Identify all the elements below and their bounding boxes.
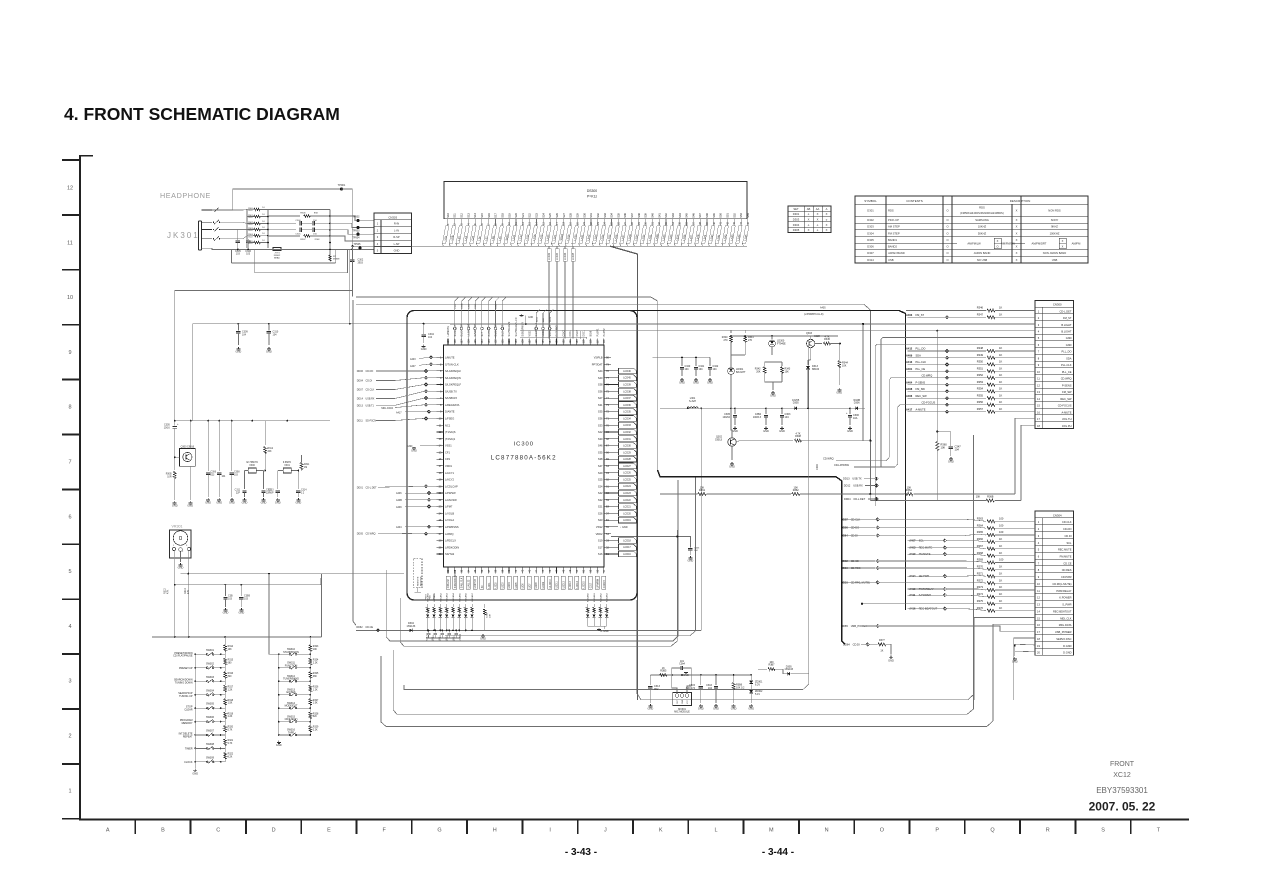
svg-text:CF9: CF9 [445, 457, 450, 461]
svg-text:SD-FSCN: SD-FSCN [366, 420, 377, 423]
svg-text:S36: S36 [598, 417, 603, 421]
svg-text:DD13: DD13 [843, 477, 850, 481]
wire left y323 long net [193, 323, 450, 325]
svg-text:GND: GND [187, 504, 193, 508]
svg-text:2.2K: 2.2K [228, 716, 233, 718]
svg-text:10: 10 [67, 295, 73, 301]
capacitor C308 column [231, 421, 233, 471]
svg-text:PWR.RELAY: PWR.RELAY [1056, 589, 1071, 593]
svg-text:135: 135 [474, 339, 477, 344]
svg-text:7: 7 [68, 460, 71, 466]
resistor R374 [987, 595, 995, 598]
svg-text:S54: S54 [746, 213, 750, 218]
svg-text:10K: 10K [976, 496, 981, 499]
svg-text:PW6: PW6 [430, 594, 432, 600]
svg-text:L/WRQ: L/WRQ [445, 532, 454, 536]
svg-text:CD.WRQ: CD.WRQ [823, 457, 834, 461]
svg-text:TIMER: TIMER [185, 747, 193, 750]
resistor R323 [309, 637, 311, 645]
svg-text:RECEIVE: RECEIVE [421, 576, 423, 586]
svg-text:D.GND: D.GND [1063, 651, 1071, 655]
svg-text:270: 270 [724, 339, 729, 342]
svg-text:S18: S18 [500, 213, 504, 218]
svg-text:6: 6 [68, 514, 71, 520]
svg-text:S42: S42 [664, 213, 668, 218]
led LD301 backlight [731, 354, 745, 356]
resistor R355 1K [987, 397, 995, 400]
svg-text:S: S [1101, 828, 1105, 834]
svg-text:DD06: DD06 [357, 370, 364, 373]
svg-text:1K: 1K [999, 400, 1002, 404]
switch column right rail [278, 654, 280, 736]
svg-text:HSCAN3: HSCAN3 [446, 592, 449, 602]
capacitor C313 mic [649, 675, 651, 685]
svg-text:LCD14: LCD14 [577, 580, 579, 588]
svg-text:R3B7: R3B7 [768, 664, 775, 667]
svg-text:GND: GND [836, 391, 842, 395]
svg-text:10K: 10K [228, 649, 233, 651]
q302 wires [731, 408, 732, 438]
capacitor C309 on y323 [237, 324, 239, 331]
svg-text:R364: R364 [977, 523, 984, 527]
svg-text:R369: R369 [977, 558, 984, 562]
svg-text:6B100: 6B100 [812, 368, 820, 371]
svg-text:BLU: BLU [249, 217, 253, 219]
svg-text:X: X [1016, 209, 1018, 213]
svg-text:L36: L36 [477, 236, 482, 241]
resistor C319 pull [484, 604, 486, 608]
svg-text:R363: R363 [977, 517, 984, 521]
svg-text:AM STEP: AM STEP [888, 225, 900, 229]
svg-text:1K: 1K [999, 387, 1002, 391]
svg-text:S22: S22 [528, 213, 532, 218]
svg-text:S43: S43 [671, 213, 675, 218]
svg-text:LCD37: LCD37 [623, 397, 631, 400]
svg-text:S32: S32 [596, 213, 600, 218]
svg-text:PLL_CE: PLL_CE [1062, 370, 1072, 374]
svg-text:32.768KHz: 32.768KHz [246, 461, 259, 464]
svg-text:L/ASCSW: L/ASCSW [445, 498, 457, 502]
svg-text:2.7K: 2.7K [228, 730, 233, 732]
svg-text:10KHZ: 10KHZ [978, 225, 987, 229]
svg-text:GND: GND [1066, 336, 1072, 340]
svg-text:1K: 1K [999, 380, 1002, 384]
svg-text:VR301: VR301 [172, 525, 183, 529]
thick drop lower part [636, 600, 638, 694]
svg-text:CN304: CN304 [1053, 513, 1062, 517]
svg-text:GND: GND [223, 611, 229, 615]
resistor R357 1K [987, 410, 995, 413]
svg-text:S40: S40 [651, 213, 655, 218]
svg-text:TUNING UP: TUNING UP [179, 695, 193, 698]
svg-text:117: 117 [596, 339, 599, 344]
capacitor C303 row [268, 229, 296, 231]
svg-text:DD04: DD04 [844, 497, 851, 501]
option table small [788, 206, 831, 233]
svg-text:50KHZ: 50KHZ [978, 231, 987, 235]
gnd pin14 VSS1 [420, 445, 437, 447]
svg-text:L/ACY1: L/ACY1 [445, 471, 454, 475]
capacitor C304 inside box top-left [423, 324, 425, 334]
wire x321 drop [320, 574, 322, 578]
led LD300 [769, 340, 776, 347]
svg-text:FM_SW: FM_SW [916, 387, 926, 391]
svg-text:A928: A928 [814, 335, 820, 338]
svg-text:VDD1: VDD1 [445, 464, 452, 468]
svg-text:L/D7: L/D7 [529, 583, 531, 589]
svg-text:R366: R366 [977, 537, 984, 541]
svg-text:REC-BDATOUT: REC-BDATOUT [1053, 609, 1072, 613]
svg-text:S16: S16 [598, 552, 603, 556]
svg-text:S40: S40 [598, 376, 603, 380]
svg-text:S/ALLCLK: S/ALLCLK [461, 577, 464, 588]
svg-text:S29: S29 [575, 213, 579, 218]
resistor R317 [224, 681, 226, 685]
resistor R364 [987, 527, 995, 530]
svg-text:LCD44: LCD44 [565, 252, 567, 260]
svg-text:131: 131 [501, 339, 504, 344]
resistor R328 [309, 708, 311, 712]
svg-text:PL3/V2: PL3/V2 [603, 328, 606, 337]
wire left rail y420 [175, 420, 330, 422]
svg-text:R328: R328 [313, 713, 319, 715]
wire vertical x870 [869, 317, 871, 494]
svg-text:B: B [161, 828, 165, 834]
caps C340 C341 C342 [681, 357, 683, 366]
wires to CN303 inputs [330, 216, 374, 221]
switch matrix output wire [269, 653, 279, 655]
svg-text:XC12: XC12 [1113, 772, 1131, 779]
wire bus left drop [351, 246, 353, 297]
left verticals to switch bus [174, 560, 176, 637]
svg-text:104: 104 [428, 336, 433, 339]
resistor R326 [309, 681, 311, 685]
svg-text:C319: C319 [440, 634, 442, 640]
svg-text:R317: R317 [228, 686, 234, 688]
svg-text:KSCAN0: KSCAN0 [587, 592, 590, 602]
svg-text:1K: 1K [999, 606, 1002, 610]
svg-text:GND: GND [683, 673, 689, 677]
svg-text:A: A [106, 828, 110, 834]
svg-text:CD.RES: CD.RES [1062, 568, 1072, 572]
svg-text:3: 3 [68, 679, 71, 685]
svg-text:DD07: DD07 [357, 389, 364, 392]
svg-text:A412: A412 [906, 347, 913, 351]
svg-text:S34: S34 [610, 213, 614, 218]
svg-text:R-SP: R-SP [393, 235, 399, 239]
svg-text:A407: A407 [410, 365, 416, 368]
resistor R318 [224, 695, 226, 699]
svg-text:FRONT: FRONT [1110, 761, 1135, 768]
vr301 wires [173, 551, 176, 560]
resistor R360 pulldown [936, 331, 938, 442]
svg-text:TUNER/BAND: TUNER/BAND [283, 678, 299, 681]
resistor R341 [744, 330, 746, 333]
svg-text:GND: GND [236, 350, 242, 354]
svg-text:104: 104 [242, 333, 247, 336]
resistor R356 mic [733, 675, 735, 682]
svg-text:GND: GND [1012, 660, 1018, 664]
svg-text:C318: C318 [433, 634, 435, 640]
svg-text:1K: 1K [999, 346, 1002, 350]
svg-text:GND: GND [707, 381, 713, 385]
svg-text:DD64: DD64 [843, 642, 850, 646]
svg-text:S28: S28 [569, 213, 573, 218]
svg-text:LCD33: LCD33 [623, 424, 631, 427]
svg-text:119: 119 [583, 339, 586, 344]
svg-text:(NC)474: (NC)474 [686, 687, 696, 690]
resistor R366 [987, 540, 995, 543]
ferrite bead FB300 [273, 248, 281, 251]
resistor R352 1K [987, 376, 995, 379]
svg-text:104: 104 [955, 448, 960, 452]
IC300 left pins [437, 356, 444, 358]
svg-text:1K: 1K [999, 537, 1002, 541]
svg-text:R347: R347 [977, 312, 984, 316]
svg-text:S24: S24 [598, 484, 603, 488]
svg-text:L/LCD10: L/LCD10 [550, 579, 552, 589]
svg-text:LCD45: LCD45 [623, 377, 631, 380]
switch left col gnd [194, 762, 196, 768]
svg-text:CD-FOCUS: CD-FOCUS [922, 401, 936, 405]
wire thick drop from bus [610, 246, 637, 700]
svg-text:S37: S37 [630, 213, 634, 218]
svg-text:LCD30: LCD30 [623, 445, 631, 448]
svg-text:W10B: W10B [853, 399, 860, 402]
svg-text:A401: A401 [906, 367, 913, 371]
svg-text:GND: GND [192, 771, 198, 775]
IC300 bottom pins [447, 567, 449, 574]
resistor R308b [795, 439, 802, 442]
svg-text:GND: GND [682, 699, 684, 704]
svg-text:EBY37593301: EBY37593301 [1096, 786, 1148, 795]
svg-text:100KHZ: 100KHZ [1050, 231, 1060, 235]
svg-text:10K: 10K [785, 371, 790, 374]
svg-text:A405: A405 [820, 307, 826, 310]
wire pin80 to caps [653, 356, 711, 358]
capacitor C302 row [268, 222, 296, 224]
svg-text:HSCAN5: HSCAN5 [458, 592, 461, 602]
svg-text:S29: S29 [598, 471, 603, 475]
svg-text:10K 1/2: 10K 1/2 [736, 686, 745, 689]
svg-text:1.5K: 1.5K [228, 703, 233, 705]
svg-text:S/PLKDATA/PLL2: S/PLKDATA/PLL2 [454, 569, 457, 588]
svg-text:C308: C308 [234, 472, 240, 474]
svg-text:100: 100 [999, 523, 1004, 527]
power bus y408 [660, 407, 865, 409]
svg-text:S31: S31 [589, 213, 593, 218]
svg-text:SDA: SDA [1066, 356, 1072, 360]
svg-text:K: K [659, 828, 663, 834]
svg-text:PLL-CLK: PLL-CLK [916, 360, 927, 364]
svg-text:O: O [946, 218, 948, 222]
svg-text:X: X [817, 218, 819, 222]
svg-text:1K: 1K [999, 571, 1002, 575]
option table main [855, 196, 1088, 263]
svg-text:IC300: IC300 [514, 442, 534, 448]
resistor R344 [838, 344, 840, 361]
svg-text:DD65: DD65 [841, 624, 848, 628]
connector DS300 body [444, 182, 747, 219]
resistor R363 [987, 520, 995, 523]
resistor R312 crystal [264, 421, 266, 445]
svg-text:L-IN: L-IN [394, 228, 399, 232]
wire rail under IC second [445, 477, 695, 636]
resistor R376 [987, 609, 995, 612]
svg-text:L/PWRM: L/PWRM [597, 579, 599, 588]
svg-text:KSCAN2: KSCAN2 [599, 592, 602, 602]
zener ZD300 [750, 675, 752, 680]
svg-text:S15: S15 [480, 213, 484, 218]
svg-text:LCD46: LCD46 [623, 370, 631, 373]
svg-text:VDD2: VDD2 [596, 532, 603, 536]
wire vertical x701 [700, 408, 702, 630]
svg-text:MEMORY: MEMORY [182, 722, 193, 725]
svg-text:S14: S14 [473, 213, 477, 218]
resistor R346 1K [987, 309, 995, 312]
resistor R350 1K [987, 363, 995, 366]
svg-text:MDL.CLK: MDL.CLK [1060, 616, 1072, 620]
svg-text:Y1 GND: Y1 GND [599, 630, 608, 633]
svg-text:P: P [935, 828, 939, 834]
svg-text:GND: GND [847, 429, 853, 433]
svg-text:R350: R350 [977, 360, 984, 364]
connector CN300 [1035, 300, 1074, 428]
svg-text:R318: R318 [228, 700, 234, 702]
svg-text:C/CD15: C/CD15 [604, 579, 606, 588]
svg-text:GND: GND [239, 611, 245, 615]
svg-text:C302: C302 [455, 303, 457, 309]
svg-text:D305: D305 [793, 228, 800, 232]
resistor R371 [987, 575, 995, 578]
svg-text:SONY: SONY [1051, 218, 1059, 222]
resistor R314 [224, 637, 226, 645]
svg-text:↓ GND: ↓ GND [620, 526, 628, 529]
svg-text:PRESET.UP: PRESET.UP [179, 667, 193, 670]
svg-text:R374: R374 [977, 592, 984, 596]
svg-text:GND: GND [698, 707, 704, 711]
svg-text:LCD19: LCD19 [623, 519, 631, 522]
resistor R347 1K [987, 316, 995, 319]
svg-text:CLEAR: CLEAR [184, 708, 192, 711]
svg-text:MGNE: MGNE [333, 259, 340, 261]
resistor R349 1K [987, 356, 995, 359]
wire mid loop y689 [404, 340, 809, 690]
svg-text:R377: R377 [879, 639, 885, 642]
svg-text:GND: GND [648, 707, 654, 711]
resistor R315 [224, 654, 226, 658]
svg-text:LCD18: LCD18 [623, 539, 631, 542]
svg-text:S23: S23 [535, 213, 539, 218]
svg-text:R365: R365 [977, 530, 984, 534]
svg-text:FM_SW: FM_SW [1062, 390, 1072, 394]
svg-text:BEAD: BEAD [274, 257, 280, 260]
svg-text:L/VOLB: L/VOLB [445, 511, 454, 515]
svg-text:X: X [808, 228, 810, 232]
jack bottom rail [202, 248, 387, 249]
svg-text:R315: R315 [228, 659, 234, 661]
svg-text:S22: S22 [598, 430, 603, 434]
svg-text:P-SENS: P-SENS [916, 380, 926, 384]
svg-text:R351: R351 [977, 366, 984, 370]
wire vr wiper row [181, 573, 405, 575]
svg-text:S/USB.RX: S/USB.RX [445, 396, 457, 400]
svg-text:1K: 1K [999, 407, 1002, 411]
svg-text:R: R [1046, 828, 1050, 834]
resistor R375 [987, 602, 995, 605]
resistor R365 [987, 534, 995, 537]
svg-text:S42: S42 [598, 491, 603, 495]
svg-text:BAND1: BAND1 [888, 238, 897, 242]
wire JOG row 18 [1021, 425, 1035, 500]
svg-text:X: X [1062, 245, 1064, 249]
svg-text:GND: GND [421, 347, 427, 351]
resistor R340 [730, 330, 732, 333]
svg-text:LCD21: LCD21 [623, 506, 631, 509]
IC300 body [444, 345, 605, 567]
wire loop outer left [353, 300, 356, 625]
svg-text:TAPE: TAPE [288, 732, 295, 735]
capacitor C311 crystal [244, 471, 246, 490]
svg-text:HSCAN7: HSCAN7 [471, 592, 474, 602]
svg-text:USB.T1: USB.T1 [366, 404, 375, 407]
svg-text:R362: R362 [793, 489, 800, 492]
svg-text:9: 9 [68, 350, 71, 356]
svg-text:S21: S21 [598, 505, 603, 509]
svg-text:DD05: DD05 [357, 532, 364, 535]
svg-text:X: X [1016, 218, 1018, 222]
wire drops LCD42-LCD45 [548, 246, 550, 330]
svg-text:LCD27: LCD27 [623, 465, 631, 468]
svg-text:LCD16: LCD16 [623, 553, 631, 556]
test point TP903 [356, 226, 359, 229]
resistor R307 row [268, 235, 300, 237]
svg-text:X: X [1016, 245, 1018, 249]
wire top pin feed a [520, 331, 580, 339]
svg-text:CD./FLAT/PAUSE: CD./FLAT/PAUSE [173, 655, 193, 658]
svg-text:R371: R371 [977, 571, 984, 575]
svg-text:104: 104 [708, 687, 713, 690]
svg-text:SD/TH2: SD/TH2 [445, 552, 455, 556]
svg-text:C30B: C30B [462, 303, 464, 309]
svg-text:L39: L39 [498, 236, 503, 241]
svg-text:LCD36: LCD36 [623, 404, 631, 407]
resistor R325 [309, 668, 311, 672]
svg-text:11: 11 [67, 240, 73, 246]
svg-text:100: 100 [999, 558, 1004, 562]
wire VSS2 to cap C343 [611, 536, 690, 547]
resistors R342 R343 [765, 359, 782, 361]
svg-text:BLU: BLU [249, 236, 253, 238]
svg-text:GND: GND [242, 501, 248, 505]
svg-text:REC.MUTE: REC.MUTE [1058, 548, 1072, 552]
svg-text:S48: S48 [705, 213, 709, 218]
wire TP901 down [342, 189, 353, 205]
svg-text:VSS2: VSS2 [596, 525, 603, 529]
svg-text:C3b4: C3b4 [679, 663, 685, 666]
svg-text:LCD22: LCD22 [623, 499, 631, 502]
svg-text:S47: S47 [598, 464, 603, 468]
svg-text:L/ALL32: L/ALL32 [467, 579, 470, 588]
svg-text:LC877880A-56K2: LC877880A-56K2 [491, 455, 557, 462]
svg-text:BG/6: BG/6 [589, 330, 592, 336]
svg-text:S47: S47 [698, 213, 702, 218]
svg-text:S30: S30 [598, 437, 603, 441]
capacitor C310 on y323 [268, 324, 270, 331]
svg-text:8.2K: 8.2K [228, 757, 233, 759]
svg-text:S19: S19 [507, 213, 511, 218]
svg-text:D305: D305 [867, 238, 874, 242]
